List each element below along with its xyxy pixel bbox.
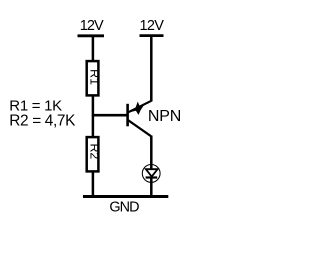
svg-text:12V: 12V xyxy=(80,18,104,34)
svg-text:GND: GND xyxy=(109,199,139,215)
svg-text:NPN: NPN xyxy=(148,108,181,125)
svg-text:R1: R1 xyxy=(88,69,102,85)
svg-text:R2: R2 xyxy=(88,143,102,159)
svg-text:R2 = 4,7K: R2 = 4,7K xyxy=(9,112,76,129)
svg-text:12V: 12V xyxy=(140,18,165,34)
